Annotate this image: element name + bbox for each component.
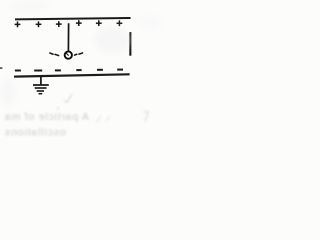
top plate (positive)	[15, 18, 131, 19]
faint digit 7	[144, 112, 149, 123]
minus 2	[34, 70, 42, 72]
svg-text:oscillations: oscillations	[5, 127, 66, 138]
faint check mark	[64, 94, 72, 103]
ground stub	[40, 76, 42, 84]
faint stray marks	[97, 116, 110, 122]
plus 2	[36, 21, 42, 27]
left edge artifact	[0, 67, 2, 69]
pendulum thread	[67, 23, 69, 51]
plus 5	[96, 20, 102, 26]
minus 1	[15, 70, 21, 72]
ground hatch 3	[37, 90, 44, 92]
minus charge row	[15, 69, 123, 72]
ground hatch 4	[39, 93, 43, 95]
minus 5	[97, 69, 103, 71]
plus 4	[76, 20, 82, 26]
plus 3	[56, 21, 62, 27]
scan noise patches	[1, 1, 163, 107]
bottom plate (negative)	[14, 74, 130, 76]
arc dash right outer	[79, 53, 83, 54]
charged ball	[65, 51, 72, 58]
minus 4	[76, 69, 81, 71]
plus 6	[117, 20, 123, 26]
minus 3	[55, 69, 61, 71]
plus 1	[15, 22, 21, 28]
ground hatch 1	[33, 84, 49, 86]
tick inside ball	[66, 53, 69, 56]
faint show-through from page back	[5, 94, 149, 139]
ground hatch 2	[35, 87, 47, 89]
svg-text:A particle of ma: A particle of ma	[5, 111, 89, 123]
arc dash left inner	[55, 54, 59, 55]
faint dot	[57, 107, 59, 109]
plus charge row	[15, 20, 123, 27]
swing arc dashes	[50, 53, 83, 56]
right vertical bar	[129, 32, 131, 56]
arc dash right inner	[75, 53, 77, 56]
arc dash left outer	[50, 53, 53, 54]
minus 6	[117, 69, 123, 71]
